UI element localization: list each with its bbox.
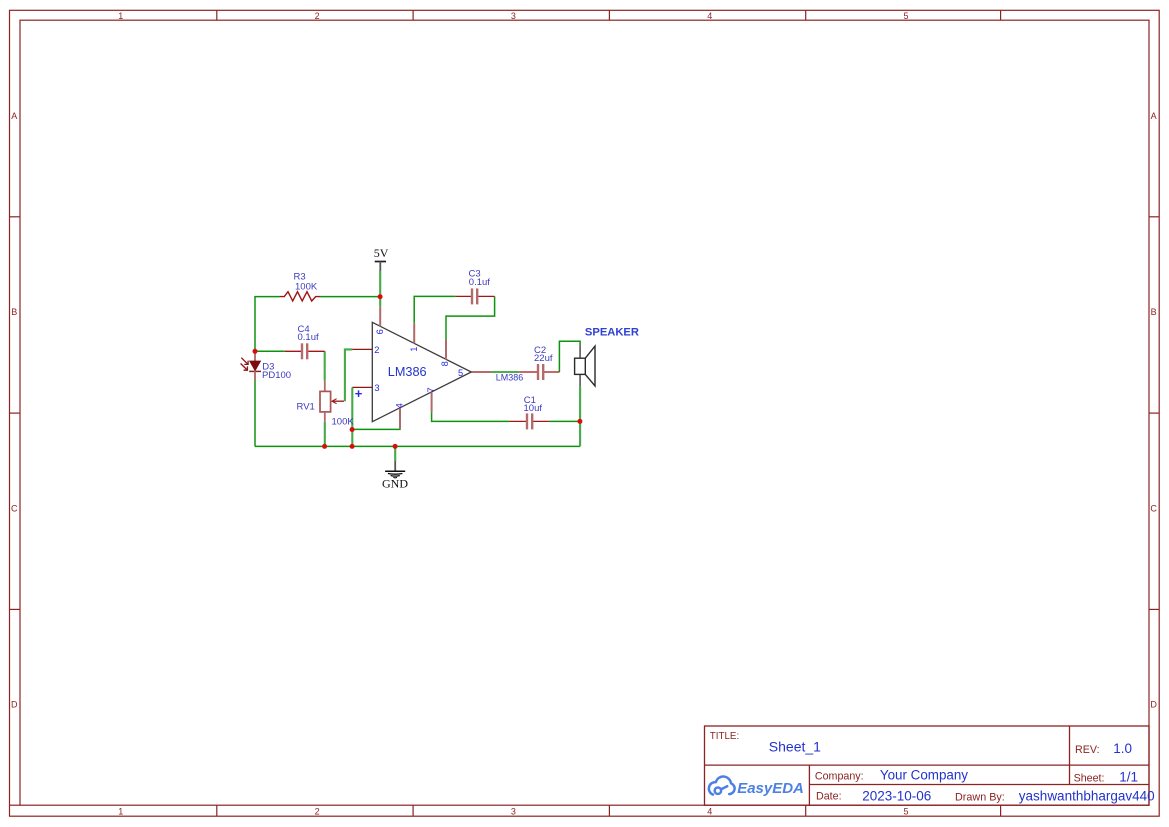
junction D3 / C4 / left rail [253, 349, 258, 354]
svg-text:4: 4 [707, 11, 712, 21]
svg-text:4: 4 [394, 403, 404, 408]
op-amp U1 LM386 triangle [372, 322, 471, 421]
svg-text:LM386: LM386 [496, 372, 524, 382]
pin 7 [431, 392, 433, 412]
svg-text:5: 5 [903, 11, 908, 21]
svg-text:Your Company: Your Company [880, 767, 968, 782]
wire C4 branch [255, 350, 285, 352]
svg-text:+: + [355, 386, 363, 401]
svg-text:GND: GND [382, 476, 408, 490]
wire pin7 to C1 [432, 412, 510, 421]
svg-text:10uf: 10uf [524, 403, 543, 414]
wire left rail lower [254, 381, 256, 446]
wire speaker bottom [579, 386, 581, 446]
svg-text:4: 4 [707, 806, 712, 816]
svg-text:TITLE:: TITLE: [710, 731, 739, 742]
pin 1 [413, 323, 415, 343]
svg-text:3: 3 [511, 806, 516, 816]
wire GND stub [394, 446, 396, 461]
svg-text:1: 1 [118, 806, 123, 816]
svg-text:LM386: LM386 [388, 365, 427, 379]
wire pin1 to C3 [414, 296, 455, 323]
pin 3 [352, 386, 372, 388]
wire C2 to speaker [559, 341, 580, 372]
svg-text:7: 7 [426, 387, 436, 392]
photodiode D3 [241, 351, 261, 381]
junction C1 / speaker net [577, 419, 582, 424]
wire bottom rail [255, 445, 580, 447]
svg-text:100K: 100K [295, 282, 318, 293]
svg-text:1/1: 1/1 [1119, 769, 1138, 784]
svg-text:Date:: Date: [816, 791, 842, 803]
svg-text:A: A [11, 111, 17, 121]
wire RV1 bottom [324, 422, 326, 447]
svg-text:100K: 100K [332, 417, 355, 428]
wire pin5 to C2 [491, 371, 519, 373]
pin 8 [445, 340, 447, 360]
svg-text:B: B [1151, 307, 1157, 317]
wire pin6 [379, 297, 381, 307]
svg-text:D: D [1150, 700, 1157, 710]
svg-text:Sheet:: Sheet: [1074, 773, 1105, 785]
svg-text:6: 6 [375, 329, 385, 334]
ground GND [382, 461, 408, 490]
svg-text:Company:: Company: [815, 770, 864, 782]
resistor R3 [280, 292, 320, 301]
wire pin3 down [351, 387, 353, 446]
wire C3 to pin8 [446, 296, 495, 339]
svg-text:Sheet_1: Sheet_1 [769, 739, 821, 755]
wire C4 to RV1 [324, 351, 326, 380]
svg-text:2: 2 [315, 11, 320, 21]
svg-text:EasyEDA: EasyEDA [737, 780, 804, 797]
capacitor C1 [509, 413, 549, 429]
svg-text:1: 1 [409, 347, 419, 352]
svg-text:5: 5 [903, 806, 908, 816]
potentiometer RV1 [320, 381, 344, 422]
wire pin2 to wiper [345, 349, 353, 401]
wire left rail upper [254, 297, 256, 352]
capacitor C3 [455, 288, 494, 304]
svg-text:B: B [11, 307, 17, 317]
capacitor C4 [285, 343, 325, 359]
svg-text:2: 2 [315, 806, 320, 816]
svg-text:8: 8 [440, 361, 450, 366]
svg-text:2: 2 [374, 345, 379, 355]
svg-text:D: D [11, 700, 18, 710]
pin numbers [355, 329, 463, 408]
svg-text:SPEAKER: SPEAKER [585, 327, 639, 339]
svg-text:0.1uf: 0.1uf [298, 332, 319, 343]
svg-text:5: 5 [458, 368, 463, 378]
power flag 5V [374, 246, 389, 271]
svg-text:C: C [11, 503, 18, 513]
pin 5 [471, 371, 491, 373]
svg-text:A: A [1151, 111, 1157, 121]
svg-text:PD100: PD100 [262, 370, 291, 381]
svg-text:0.1uf: 0.1uf [469, 277, 490, 288]
junction pin 4 / pin 3 net [350, 427, 355, 432]
pin 6 [379, 307, 381, 327]
svg-text:C: C [1150, 503, 1157, 513]
svg-text:3: 3 [374, 383, 379, 393]
svg-text:yashwanthbhargav440: yashwanthbhargav440 [1019, 789, 1155, 804]
wire pin4 [352, 428, 400, 431]
svg-text:REV:: REV: [1075, 744, 1100, 756]
junction 5V rail / pin 6 [378, 294, 383, 299]
wire top rail left [254, 296, 280, 298]
wire C1 to speaker net [549, 420, 580, 422]
capacitor C2 [519, 364, 559, 380]
junction pin 3 net / ground rail [350, 444, 355, 449]
svg-text:Drawn By:: Drawn By: [955, 791, 1005, 803]
svg-text:2023-10-06: 2023-10-06 [862, 788, 931, 803]
wire 5V stem [379, 271, 381, 297]
junction GND stub / ground rail [393, 444, 398, 449]
wire top rail right [320, 296, 380, 298]
svg-text:5V: 5V [374, 246, 389, 260]
pin 2 [352, 348, 372, 350]
svg-text:RV1: RV1 [297, 402, 315, 413]
junction RV1 bottom / ground rail [322, 444, 327, 449]
svg-text:1: 1 [118, 11, 123, 21]
pin 4 [399, 408, 401, 428]
speaker LS1 [575, 346, 595, 387]
svg-text:3: 3 [511, 11, 516, 21]
svg-text:22uf: 22uf [534, 353, 553, 364]
svg-text:1.0: 1.0 [1113, 741, 1132, 756]
EasyEDA logo [709, 776, 804, 797]
